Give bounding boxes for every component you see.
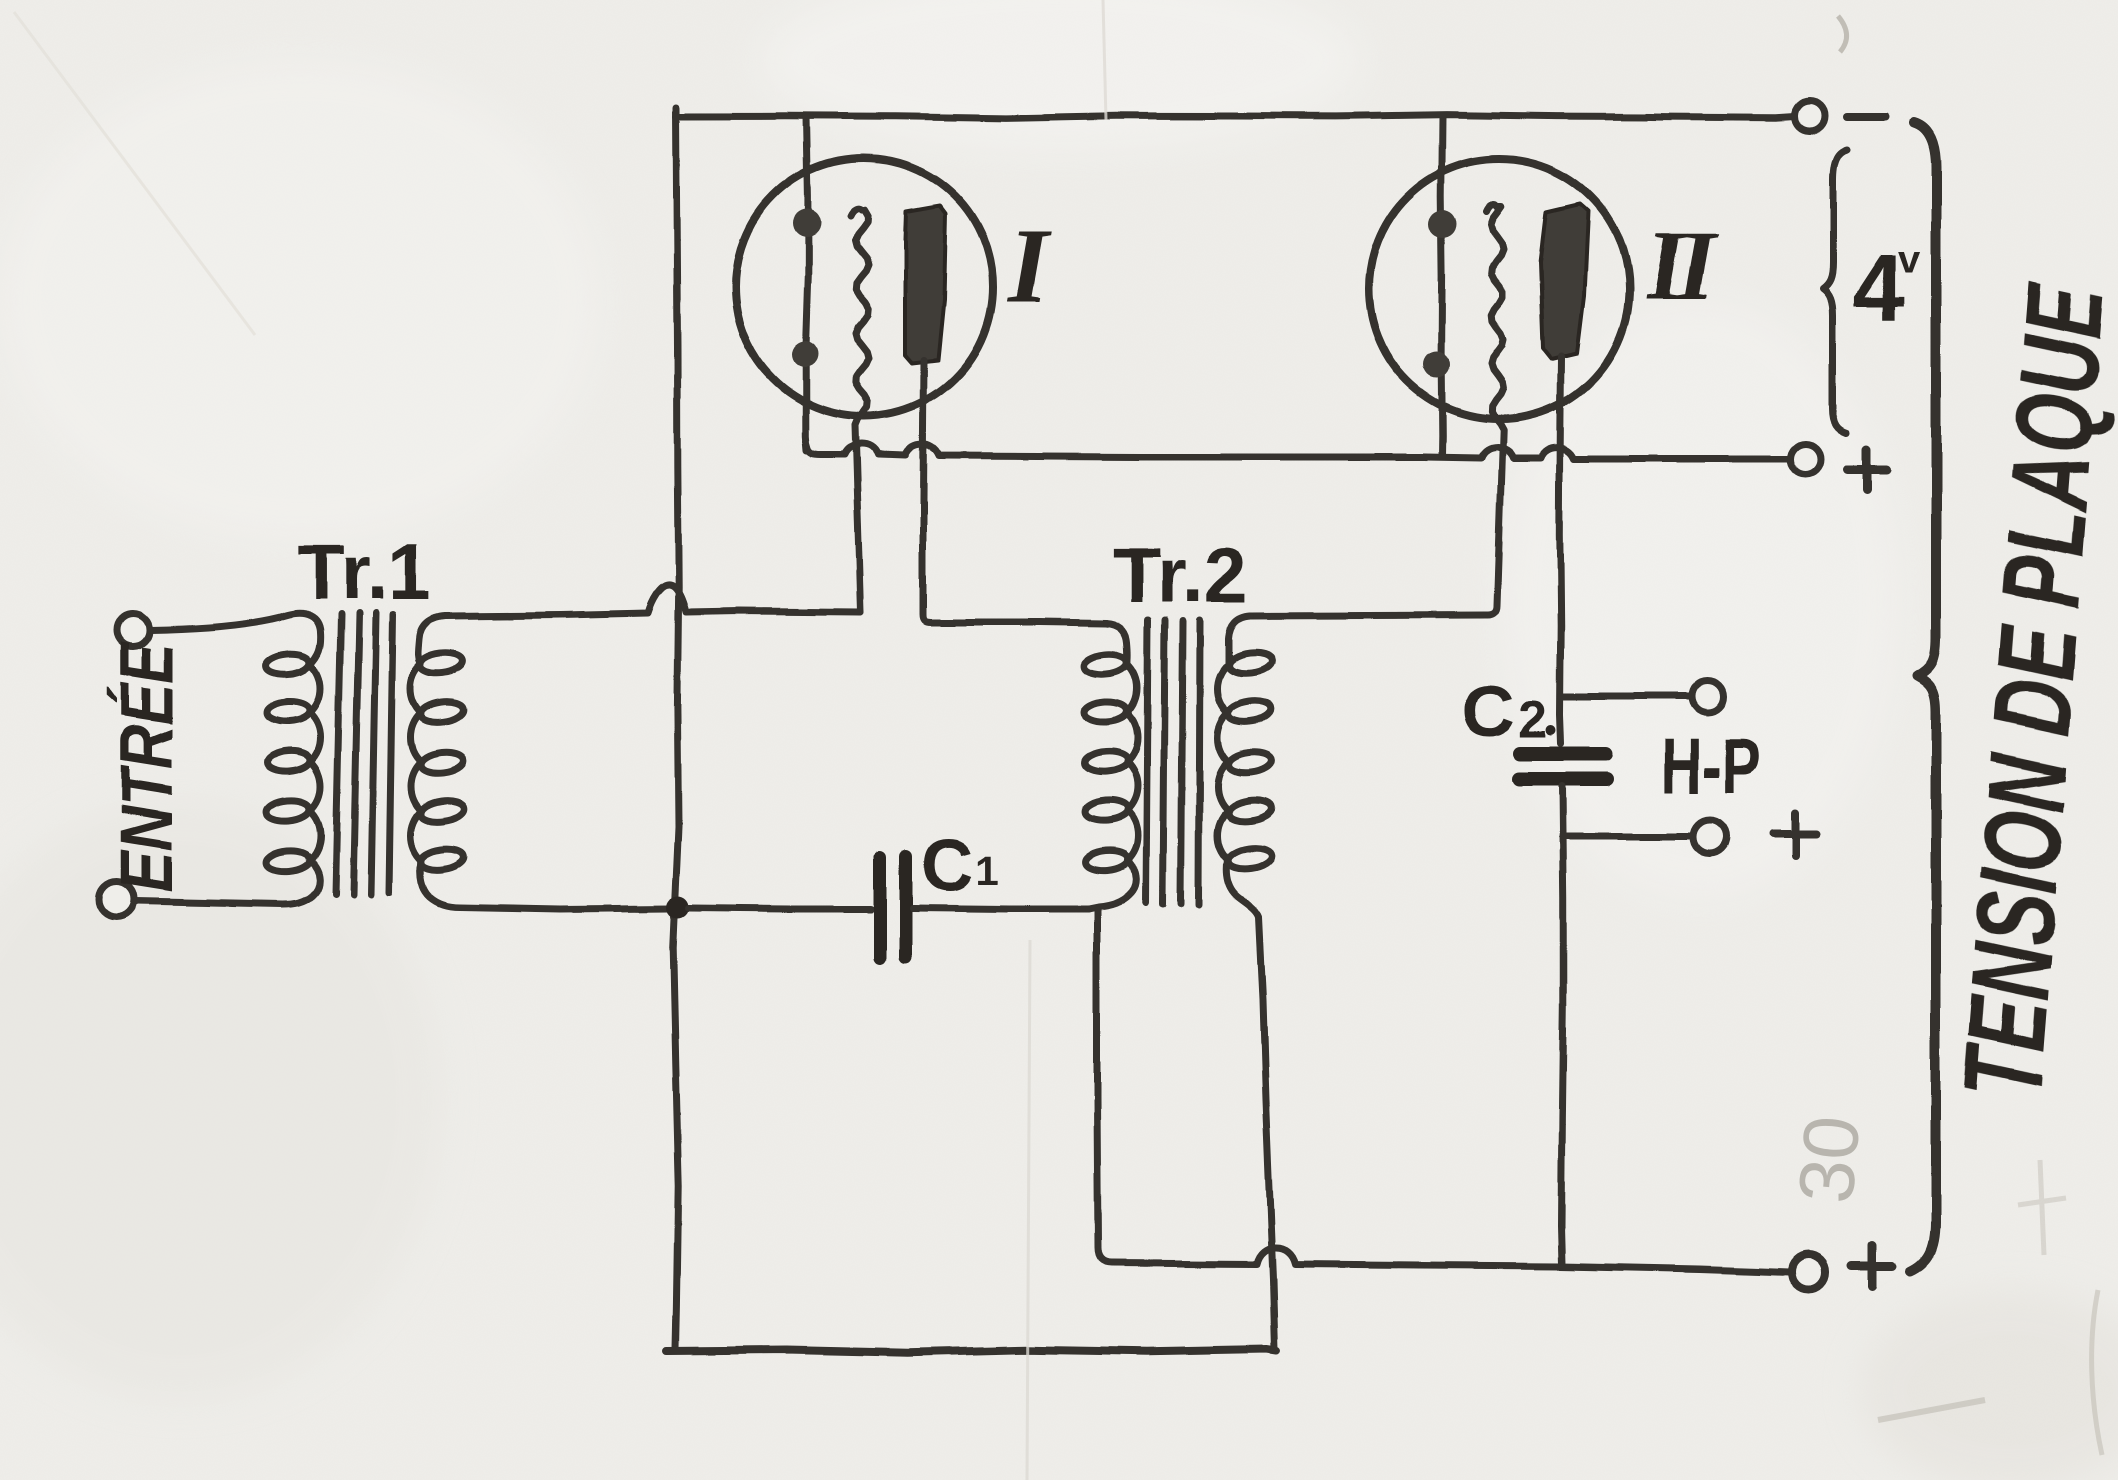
terminal: H-P lower <box>1693 820 1727 854</box>
wire: bottom grid-return rail <box>667 1350 1277 1353</box>
tube II grid electrode down then left to Tr.2 secondary <box>1250 205 1503 616</box>
paper crease faint diagonal top-left <box>14 12 255 335</box>
transformer Tr.2 secondary winding loops <box>1227 650 1272 675</box>
paper crease faint vertical left-center <box>1027 940 1030 1480</box>
transformer Tr.1 secondary winding loops <box>419 650 464 675</box>
tube I filament dot lower <box>792 341 818 367</box>
svg-text:v: v <box>1898 237 1921 281</box>
svg-text:2: 2 <box>1518 691 1547 750</box>
pencil stroke bottom right <box>1878 1400 1985 1420</box>
label: plus sign at H-P lower terminal <box>1774 812 1817 855</box>
capacitor C1 left plate <box>874 858 887 957</box>
svg-text:30: 30 <box>1781 1112 1876 1206</box>
transformer Tr.1 primary winding loops <box>266 652 311 676</box>
tube I grid (wavy electrode) down to coupling wire from Tr.1 <box>851 209 869 612</box>
transformer Tr.2 secondary winding spine <box>1218 616 1276 1350</box>
terminal: input lower <box>98 881 134 917</box>
transformer Tr.2 core <box>1146 620 1200 904</box>
label: plus sign at filament terminal <box>1847 450 1887 490</box>
transformer Tr.2 primary winding spine <box>1088 623 1138 909</box>
pencil cross mark right edge <box>2018 1160 2066 1255</box>
label: period after C2 <box>1546 726 1556 736</box>
tube I anode plate <box>905 206 946 363</box>
pencil squiggle top right <box>1838 16 1847 52</box>
wire: C2 bottom lead down to HT plus wire <box>1561 786 1563 1264</box>
svg-text:ENTRÉE: ENTRÉE <box>106 640 189 892</box>
triode valve I: envelope <box>735 158 993 416</box>
triode valve II: envelope <box>1369 159 1629 419</box>
wire: Tr.1 secondary top to tube I grid (hops left bus) <box>446 585 861 616</box>
transformer Tr.1 secondary winding spine <box>411 616 672 909</box>
label: plus sign at HT plus terminal <box>1851 1245 1893 1287</box>
capacitor C2 top plate <box>1520 747 1606 761</box>
wire: below C2 to H-P lower terminal <box>1562 833 1693 840</box>
terminal: HT minus (top right) <box>1795 101 1825 131</box>
svg-text:1: 1 <box>976 847 999 893</box>
junction dot at left bus <box>667 896 689 918</box>
svg-text:C: C <box>1462 672 1515 753</box>
pencil arc bottom right edge <box>2092 1290 2102 1455</box>
wire: filament plus rail with hops over grid/plate leads <box>806 441 1789 459</box>
tube I plate lead down then right to Tr.2 primary <box>923 360 1106 623</box>
capacitor C2 bottom plate <box>1519 772 1607 786</box>
svg-text:Tr.2: Tr.2 <box>1113 531 1247 619</box>
brace for tension de plaque (HT supply) <box>1911 123 1936 1271</box>
brace for 4V filament battery <box>1823 150 1847 433</box>
tube II filament dot upper <box>1429 210 1457 238</box>
terminal: H-P upper <box>1692 680 1724 712</box>
transformer Tr.1 primary winding spine <box>135 613 321 904</box>
capacitor C1 right plate <box>900 857 913 956</box>
wire: top supply rail (minus) <box>676 115 1795 118</box>
wire: junction to C1 left plate <box>689 908 871 909</box>
wire: left vertical bus from top rail to bottom rail <box>673 107 679 1349</box>
tube II filament dot lower <box>1424 352 1450 378</box>
terminal: input upper <box>117 614 149 646</box>
svg-text:C: C <box>921 825 974 906</box>
wire: plate node to H-P upper terminal <box>1561 693 1691 700</box>
tube I filament lead from top rail down to filament rail <box>806 116 809 450</box>
label: minus sign <box>1847 113 1886 121</box>
svg-text:H-P: H-P <box>1660 723 1761 810</box>
wire: C1 right plate to Tr.2 primary bottom <box>913 908 1088 909</box>
svg-text:II: II <box>1645 210 1719 321</box>
tube II filament lead from top rail down to filament rail <box>1441 116 1442 457</box>
svg-text:Tr.1: Tr.1 <box>297 528 431 616</box>
tube II plate lead down to C2 <box>1560 355 1561 744</box>
wire: Tr.2 primary bottom down and right to HT plus terminal (hop over secondary lead) <box>1097 910 1789 1272</box>
terminal: filament plus <box>1791 444 1821 474</box>
terminal: HT plus (bottom right) <box>1791 1255 1825 1289</box>
paper crease faint vertical top-middle <box>1103 0 1106 120</box>
tube II anode plate <box>1540 204 1588 358</box>
transformer Tr.1 core <box>335 613 393 895</box>
pencil note 30 <box>1781 1112 1876 1206</box>
svg-text:I: I <box>1006 207 1053 324</box>
transformer Tr.2 primary winding loops <box>1084 652 1129 676</box>
tube I filament dot upper <box>793 209 821 237</box>
